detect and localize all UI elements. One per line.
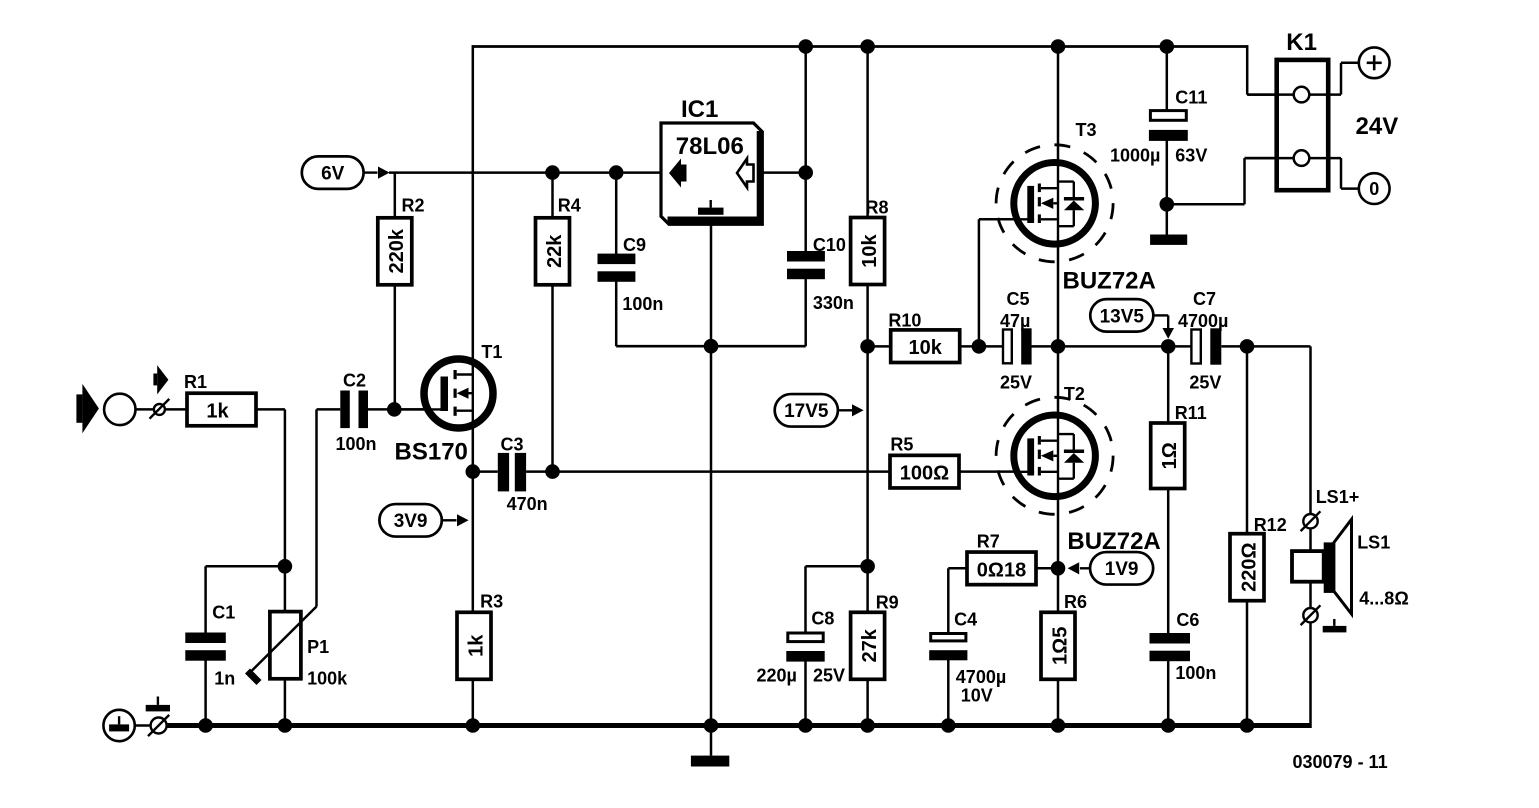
svg-text:27k: 27k (859, 628, 881, 662)
svg-text:R2: R2 (402, 196, 425, 216)
svg-text:330n: 330n (813, 293, 854, 313)
svg-text:P1: P1 (307, 637, 329, 657)
svg-text:25V: 25V (813, 666, 845, 686)
svg-text:17V5: 17V5 (784, 401, 829, 422)
svg-text:C7: C7 (1193, 289, 1216, 309)
svg-text:030079 - 11: 030079 - 11 (1293, 752, 1388, 772)
svg-text:C6: C6 (1176, 610, 1199, 630)
svg-text:R7: R7 (977, 532, 1000, 552)
svg-text:470n: 470n (507, 494, 548, 514)
svg-text:24V: 24V (1356, 113, 1399, 140)
svg-text:BUZ72A: BUZ72A (1063, 268, 1156, 295)
svg-text:R3: R3 (480, 592, 503, 612)
svg-text:1Ω: 1Ω (1159, 442, 1181, 469)
svg-text:10V: 10V (961, 686, 993, 706)
svg-text:100Ω: 100Ω (900, 463, 949, 485)
svg-text:R8: R8 (866, 198, 889, 218)
svg-text:10k: 10k (909, 337, 943, 359)
svg-text:0: 0 (1369, 179, 1379, 199)
svg-text:C4: C4 (954, 610, 977, 630)
svg-text:78L06: 78L06 (676, 133, 744, 160)
svg-text:R10: R10 (888, 310, 921, 330)
svg-text:C10: C10 (813, 235, 846, 255)
svg-text:R5: R5 (890, 435, 913, 455)
svg-text:T2: T2 (1064, 384, 1085, 404)
svg-text:T1: T1 (481, 342, 502, 362)
svg-text:K1: K1 (1286, 29, 1317, 56)
svg-text:LS1: LS1 (1357, 532, 1390, 552)
svg-text:C9: C9 (623, 235, 646, 255)
svg-text:R1: R1 (184, 372, 207, 392)
svg-text:R12: R12 (1254, 515, 1287, 535)
svg-text:1000µ: 1000µ (1110, 145, 1160, 165)
svg-text:R6: R6 (1064, 592, 1087, 612)
svg-text:100n: 100n (622, 294, 663, 314)
svg-text:220Ω: 220Ω (1238, 542, 1260, 591)
svg-text:C1: C1 (212, 603, 235, 623)
svg-text:100n: 100n (1175, 663, 1216, 683)
svg-text:C2: C2 (343, 371, 366, 391)
svg-text:6V: 6V (321, 164, 345, 185)
svg-text:100n: 100n (336, 434, 377, 454)
svg-text:R4: R4 (558, 196, 581, 216)
svg-text:1n: 1n (214, 669, 235, 689)
svg-text:4700µ: 4700µ (1178, 311, 1228, 331)
svg-text:3V9: 3V9 (394, 511, 428, 532)
svg-text:13V5: 13V5 (1100, 306, 1145, 327)
svg-text:47µ: 47µ (1000, 311, 1030, 331)
svg-text:R9: R9 (876, 592, 899, 612)
svg-text:C8: C8 (811, 608, 834, 628)
svg-text:63V: 63V (1175, 145, 1207, 165)
svg-text:R11: R11 (1175, 403, 1207, 423)
svg-text:1k: 1k (465, 634, 487, 657)
svg-text:C11: C11 (1175, 88, 1207, 108)
svg-text:IC1: IC1 (681, 96, 718, 123)
svg-text:25V: 25V (1189, 372, 1221, 392)
svg-text:220µ: 220µ (757, 666, 797, 686)
svg-text:10k: 10k (859, 233, 881, 267)
svg-text:LS1+: LS1+ (1316, 487, 1360, 507)
svg-text:22k: 22k (544, 234, 566, 268)
svg-text:220k: 220k (386, 228, 408, 273)
svg-text:BS170: BS170 (395, 439, 468, 466)
svg-text:C5: C5 (1007, 289, 1030, 309)
svg-text:0Ω18: 0Ω18 (977, 559, 1026, 581)
svg-text:C3: C3 (501, 434, 524, 454)
svg-text:4700µ: 4700µ (956, 667, 1006, 687)
svg-text:25V: 25V (1000, 372, 1032, 392)
svg-text:100k: 100k (307, 668, 348, 688)
svg-text:T3: T3 (1076, 120, 1097, 140)
svg-text:1Ω5: 1Ω5 (1049, 627, 1071, 665)
svg-text:4...8Ω: 4...8Ω (1359, 588, 1408, 608)
svg-text:1V9: 1V9 (1105, 559, 1139, 580)
svg-text:1k: 1k (206, 401, 229, 423)
